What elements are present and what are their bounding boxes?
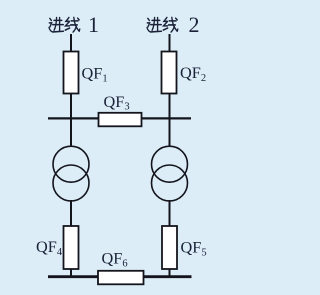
wire T1 to QF4: [70, 200, 72, 227]
wire QF4 to bottom bus: [70, 269, 72, 277]
transformer T1: [53, 146, 89, 201]
wire bus tie left segment: [48, 117, 99, 119]
bottom bus right segment: [144, 275, 192, 278]
bottom bus left segment: [48, 275, 98, 278]
wire incoming line 1 to QF1: [70, 34, 72, 52]
breaker QF3 (bus tie): [99, 113, 142, 127]
label 进线2 (incoming line 2): [147, 17, 178, 32]
breaker QF2: [162, 52, 177, 94]
wire QF2 to transformer T2: [169, 94, 171, 147]
label 进线1 (incoming line 1): [49, 17, 80, 32]
wire QF1 to transformer T1: [70, 94, 72, 147]
svg-text:1: 1: [88, 12, 99, 37]
wire QF5 to bottom bus: [169, 269, 171, 277]
wire bus tie right segment: [142, 117, 192, 119]
transformer T2: [152, 146, 188, 201]
svg-text:2: 2: [189, 12, 200, 37]
breaker QF4: [64, 226, 79, 269]
breaker QF5: [162, 226, 177, 269]
breaker QF1: [64, 52, 79, 94]
wire incoming line 2 to QF2: [169, 34, 171, 52]
breaker QF6 (bottom bus tie): [98, 271, 144, 285]
wire T2 to QF5: [169, 200, 171, 227]
